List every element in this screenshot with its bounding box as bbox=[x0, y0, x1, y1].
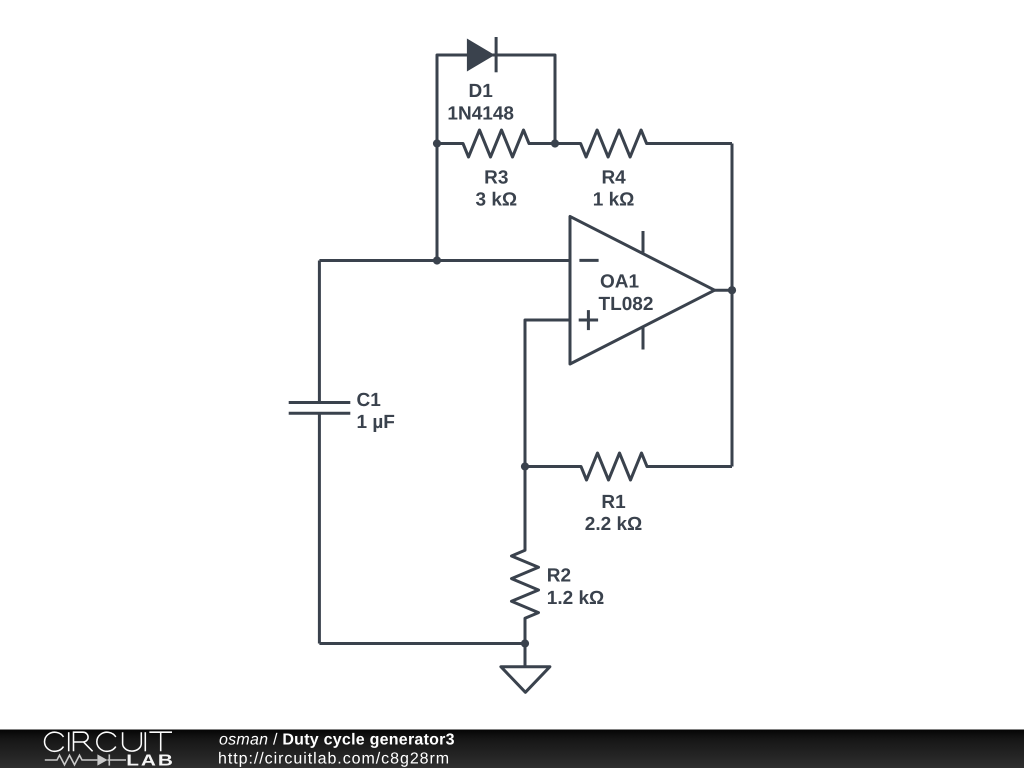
op-amp OA1 V+ power stub bbox=[642, 231, 645, 253]
wire op-amp output bbox=[715, 289, 732, 292]
op-amp OA1 non-inverting input plus sign bbox=[579, 319, 598, 322]
resistor R4 bbox=[555, 130, 732, 157]
wire left branch upper (to C1 top plate) bbox=[318, 261, 321, 403]
svg-text:LAB: LAB bbox=[126, 752, 175, 768]
svg-text:R3: R3 bbox=[484, 167, 508, 188]
svg-text:C1: C1 bbox=[357, 390, 382, 411]
junction node ground rail bbox=[521, 639, 529, 647]
svg-text:1 µF: 1 µF bbox=[357, 412, 395, 433]
junction node R1/R2/+ bbox=[521, 462, 529, 470]
wire non-inverting input bbox=[525, 320, 570, 467]
svg-text:R1: R1 bbox=[601, 492, 626, 513]
junction node inverting input bbox=[433, 256, 441, 264]
resistor R1 bbox=[525, 453, 732, 480]
diode D1 cathode bar bbox=[495, 37, 498, 72]
wire vertical from R3 left down to inverting node bbox=[436, 144, 439, 261]
svg-text:1N4148: 1N4148 bbox=[447, 103, 514, 124]
op-amp OA1 triangle bbox=[570, 216, 715, 364]
resistor R2 bbox=[512, 467, 539, 644]
junction node R3 right / R4 left bbox=[551, 139, 559, 147]
svg-text:http://circuitlab.com/c8g28rm: http://circuitlab.com/c8g28rm bbox=[218, 751, 450, 768]
wire left branch lower (C1 bottom to ground rail) bbox=[318, 413, 321, 643]
svg-text:1 kΩ: 1 kΩ bbox=[593, 190, 635, 211]
svg-text:R2: R2 bbox=[547, 566, 571, 587]
svg-text:R4: R4 bbox=[601, 167, 626, 188]
op-amp OA1 inverting input minus sign bbox=[579, 259, 598, 262]
resistor R3 bbox=[437, 130, 555, 157]
ground symbol bbox=[501, 667, 550, 693]
svg-text:OA1: OA1 bbox=[600, 272, 640, 293]
svg-text:TL082: TL082 bbox=[599, 294, 654, 315]
CircuitLab logo CIRCUIT bbox=[45, 732, 172, 751]
op-amp OA1 V- power stub bbox=[642, 326, 645, 349]
wire bottom rail bbox=[319, 642, 525, 645]
logo resistor-diode squiggle bbox=[45, 754, 126, 765]
svg-text:2.2 kΩ: 2.2 kΩ bbox=[585, 514, 643, 535]
wire right vertical feedback bbox=[731, 144, 734, 467]
capacitor C1 plates bbox=[289, 401, 351, 404]
footer bar bbox=[0, 730, 1024, 768]
junction node R3 left bbox=[433, 139, 441, 147]
ground stub bbox=[524, 644, 527, 667]
svg-text:D1: D1 bbox=[469, 81, 494, 102]
svg-text:1.2 kΩ: 1.2 kΩ bbox=[547, 588, 605, 609]
junction node output bbox=[728, 286, 736, 294]
diode D1 triangle bbox=[467, 39, 495, 72]
svg-text:osman / Duty cycle generator3: osman / Duty cycle generator3 bbox=[219, 731, 455, 748]
svg-text:3 kΩ: 3 kΩ bbox=[475, 190, 517, 211]
logo diode triangle bbox=[97, 754, 107, 765]
wire D1 top loop bbox=[437, 55, 555, 144]
wire inverting input horizontal bbox=[319, 259, 570, 262]
